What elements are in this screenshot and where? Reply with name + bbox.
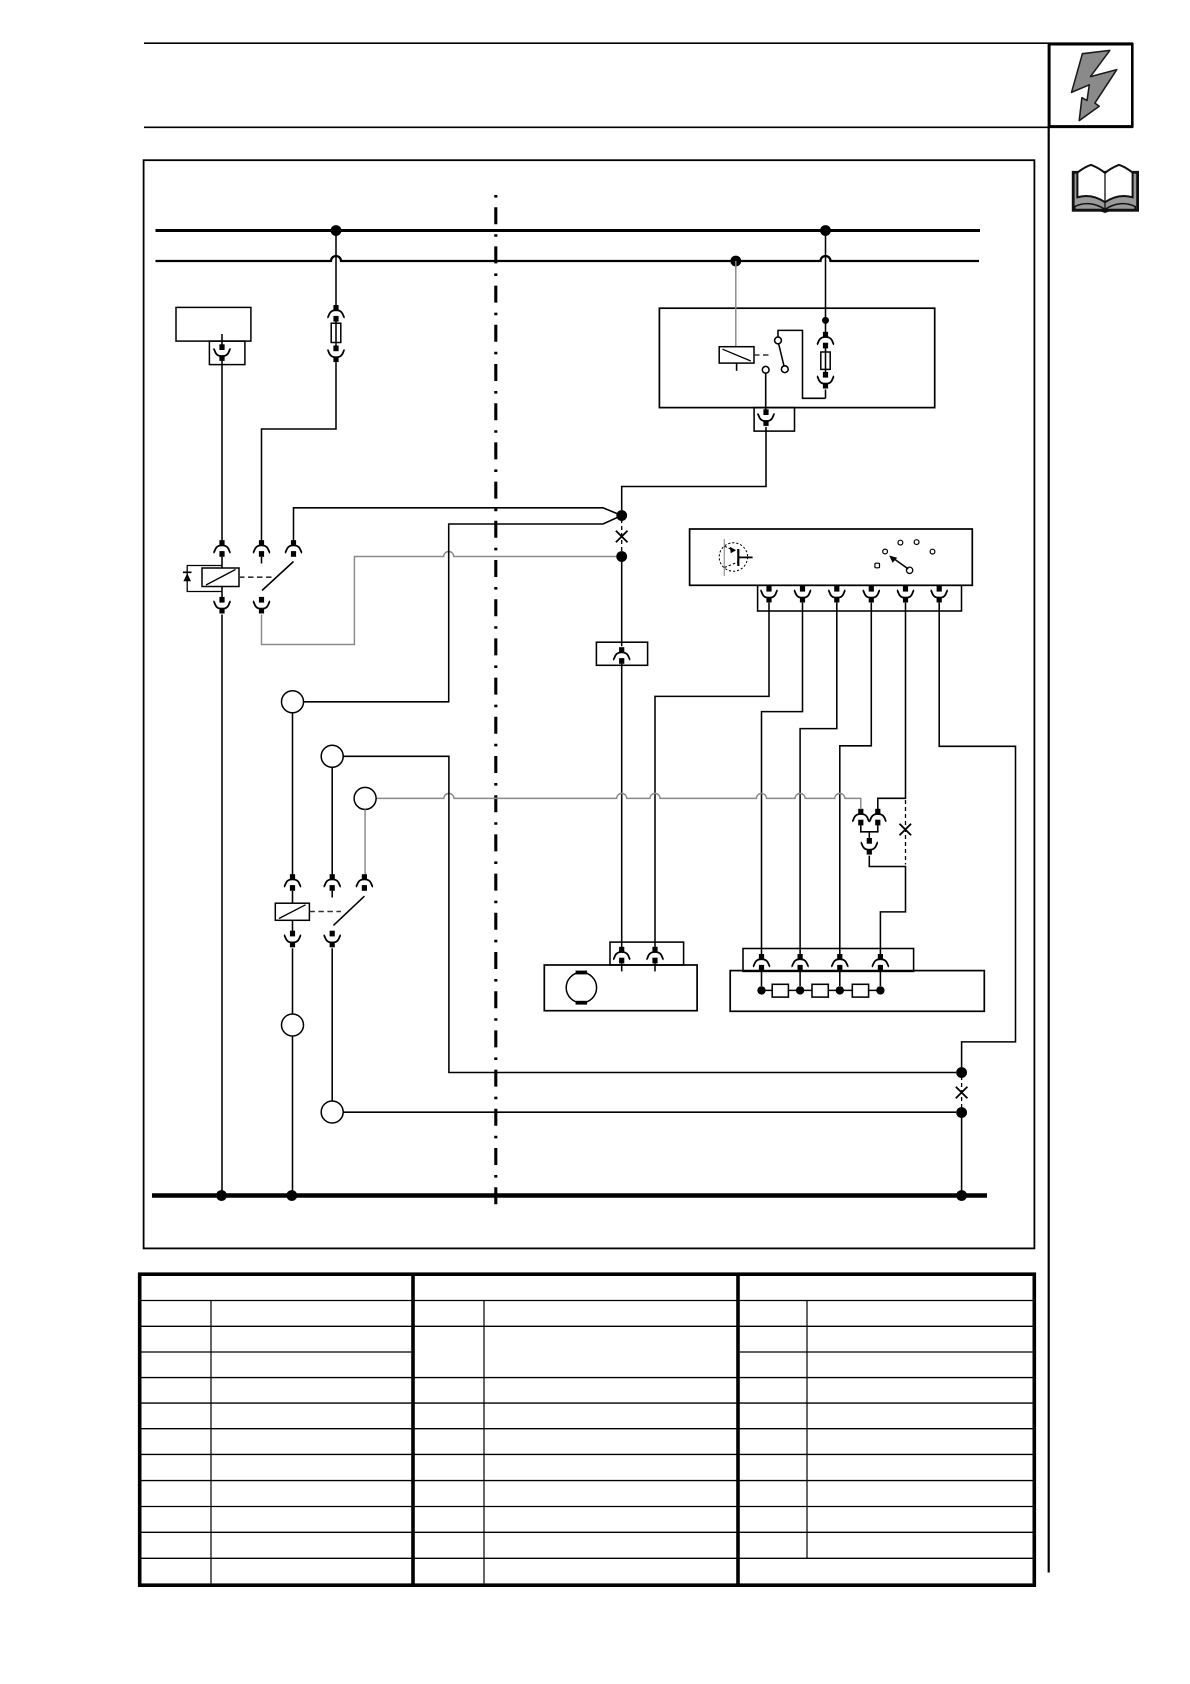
junction node on bus 30 at fuse S. <box>331 225 342 236</box>
terminal circle C4 <box>282 1014 304 1036</box>
ground node A <box>216 1190 227 1201</box>
wire relay J switch common to fuse F2 bottom <box>778 330 826 398</box>
blower motor connector housing <box>610 942 684 965</box>
bus bar 30 (top thick) <box>156 229 981 232</box>
wire C1 to relay K2 pin 1 <box>292 713 294 875</box>
relay J switch contact out <box>762 366 769 373</box>
connector pin 4 <box>863 586 880 603</box>
relay K2 connector pin 4 (bottom, coil) <box>284 931 301 948</box>
motor connector pin 1 <box>613 947 630 964</box>
relay K1 connector pin 3 (top) <box>285 540 302 557</box>
relay K1 switch blade <box>262 562 294 591</box>
connector pin 1 <box>760 586 777 603</box>
relay K2 connector pin 3 (top) <box>356 874 373 891</box>
control module box J301 <box>690 529 973 585</box>
relay K2 connector pin 2 (top) <box>324 874 341 891</box>
connector pin 3 <box>828 586 845 603</box>
transistor U1 (dashed circle) <box>719 543 747 571</box>
connector pin 5 <box>897 586 914 603</box>
relay J switch blade <box>779 344 784 366</box>
wire (grey) bus 15 to relay J coil <box>735 261 737 347</box>
node X1 lower junction <box>616 551 627 562</box>
relay K2 coil wire bottom <box>292 920 294 931</box>
relay K2 coil <box>275 903 309 920</box>
wire through fuse F1 <box>335 322 337 346</box>
relay K1 connector pin 1 (top) <box>213 540 230 557</box>
fuse F1 body <box>331 323 341 342</box>
relay K2 connector pin 5 (bottom, switch) <box>324 931 341 948</box>
resistor chain wire <box>762 989 881 991</box>
resistor pack connector pin 2 <box>792 954 809 971</box>
header rule bottom <box>144 126 1133 128</box>
resistor pack connector pin 3 <box>831 954 848 971</box>
wire relay K1 pin 3 to node X1 <box>294 508 622 541</box>
resistor R1 <box>772 984 788 997</box>
relay box J (top right) <box>659 308 934 407</box>
resistor pack connector housing <box>743 949 914 972</box>
resistor R2 <box>812 984 828 997</box>
splice mark X2 <box>900 824 912 836</box>
right column separator line <box>1048 43 1050 1572</box>
transistor U1 arrowhead <box>730 547 736 554</box>
diode V1 <box>183 571 192 573</box>
motor pin 1 stub <box>621 963 623 971</box>
wire (grey) relay K1 switch output to node X1 <box>262 552 618 645</box>
wire node to connector <box>825 320 827 332</box>
relay K2 switch blade <box>333 896 364 925</box>
dashed splice link X1 <box>621 519 623 553</box>
motor brush top <box>576 971 588 975</box>
wire fuse F2 lower stub <box>825 390 827 399</box>
relay K1 coil wire bottom <box>221 587 223 598</box>
wire C2 to relay K2 pin 2 <box>331 767 333 874</box>
ground bus 31 (bottom thick) <box>152 1193 987 1197</box>
connector T1a <box>213 344 230 361</box>
transistor U1 bar <box>737 549 739 566</box>
wire splice Y to resistor pack pin 4 <box>869 856 905 955</box>
transistor U1 base line (grey) <box>723 539 725 576</box>
wire through fuse F2 <box>825 347 827 373</box>
node Y upper junction <box>956 1067 967 1078</box>
relay K1 connector pin 2 (top) <box>253 540 270 557</box>
rotary switch pivot <box>906 567 912 573</box>
node X1 upper junction <box>616 510 627 521</box>
terminal circle C5 <box>321 1101 343 1123</box>
resistor node 2 <box>796 986 804 994</box>
resistor node 1 <box>757 986 765 994</box>
ground node B <box>286 1190 297 1201</box>
splice mark X3 <box>956 1087 968 1099</box>
terminal circle C2 <box>321 745 343 767</box>
centre dividing dash-dot line <box>494 195 497 1205</box>
resistor node 4 <box>876 986 884 994</box>
control module 6-pin connector housing <box>758 585 962 611</box>
relay K1 pin 2 stub <box>261 557 263 564</box>
wire bus 30 down to fuse F1 <box>335 231 337 306</box>
rotary switch contact c <box>914 540 919 545</box>
relay K2 coil wire top <box>292 891 294 903</box>
motor pin 2 stub <box>654 963 656 971</box>
wire pin2 to resistor pack pin 1 <box>762 603 803 955</box>
relay box output connector housing <box>754 408 794 432</box>
motor brush bottom <box>576 1001 588 1005</box>
connector below fuse F2 <box>817 372 834 389</box>
electrical warning icon box <box>1049 44 1132 126</box>
inline connector box <box>596 642 647 665</box>
motor armature circle <box>566 972 596 1002</box>
legend table outer border <box>140 1274 1035 1585</box>
relay K1 connector pin 5 (bottom, switch) <box>253 597 270 614</box>
wire bus 30 down to fuse F2 <box>825 231 827 319</box>
wire pin4 to resistor pack pin 3 <box>840 603 872 955</box>
wire pin3 to resistor pack pin 2 <box>800 603 837 955</box>
motor connector pin 2 <box>646 947 663 964</box>
wire C5 right to node Y lower <box>343 1111 956 1113</box>
relay K2 pin 2 stub <box>331 891 333 898</box>
relay K1 actuation dashed link <box>239 576 272 578</box>
legend table group separator 1 <box>411 1274 415 1585</box>
terminal circle C1 <box>282 691 304 713</box>
resistor pack pin stubs <box>762 971 881 986</box>
resistor pack box N23 <box>730 971 984 1012</box>
ground node C <box>956 1190 967 1201</box>
control unit box (top left) <box>176 307 251 341</box>
relay K1 coil <box>202 568 239 587</box>
dashed splice bypass <box>905 800 907 865</box>
blower motor box V2 <box>544 965 697 1011</box>
wire pin1 to blower motor pin 2 <box>655 603 769 948</box>
legend table key column line group 2 <box>483 1301 485 1584</box>
resistor R3 <box>852 984 868 997</box>
wire C4 to ground B <box>292 1036 294 1196</box>
relay K1 suppression diode loop <box>187 566 222 592</box>
wire inline connector to blower motor pin 1 <box>621 664 623 947</box>
wire pin5 down to splice Y <box>878 603 906 810</box>
relay K2 connector pin 1 (top) <box>284 874 301 891</box>
splice mark X1 <box>616 531 628 543</box>
dashed splice link Y <box>961 1076 963 1109</box>
double connector T2x left <box>852 809 869 826</box>
wire fuse F1 to relay K1 pin 2 <box>262 362 337 540</box>
wire (grey) C3 to relay K2 pin 3 <box>364 809 366 874</box>
wire control unit to relay K1 pin 1 <box>221 361 223 541</box>
node Y lower junction <box>956 1107 967 1118</box>
connector T1b <box>757 409 774 426</box>
connector above fuse F2 <box>817 332 834 349</box>
rotary switch contact d <box>930 549 935 554</box>
resistor pack connector pin 4 <box>872 954 889 971</box>
rotary switch contact b <box>898 540 903 545</box>
wire stub inside control unit <box>221 334 223 345</box>
wire relay K2 switch to terminal C5 <box>331 948 333 1101</box>
relay J switch contact common <box>775 337 782 344</box>
wire node X1 branch down to terminal circle C1 <box>304 516 622 702</box>
rotary switch contact a <box>883 549 888 554</box>
junction node on bus 30 right <box>820 225 831 236</box>
schematic frame <box>144 160 1035 1248</box>
wire node X1 to inline connector <box>621 557 623 647</box>
bus bar 15 (second) with hops <box>156 256 980 261</box>
connector pin 6 <box>931 586 948 603</box>
connector pin 2 <box>794 586 811 603</box>
inline connector T2 <box>613 647 630 664</box>
rotary switch wiper arrow <box>895 559 909 569</box>
node inside relay box <box>822 317 829 324</box>
wire node Y to ground C <box>961 1113 963 1196</box>
legend table row lines <box>142 1301 1033 1559</box>
single connector T2y <box>861 838 878 855</box>
relay K1 coil wire top <box>221 557 223 568</box>
relay J switch contact NO <box>781 366 788 373</box>
wire relay K2 coil to terminal C4 <box>292 948 294 1014</box>
double connector T2x right <box>869 809 886 826</box>
rotary switch contact e (square) <box>875 563 880 568</box>
connector above fuse F1 <box>327 305 344 322</box>
control unit connector housing <box>209 341 245 365</box>
header rule top <box>144 42 1133 44</box>
wire relay K1 coil to ground A <box>221 615 223 1196</box>
transistor U1 lead <box>738 556 752 558</box>
junction node on bus 15 <box>730 256 741 267</box>
legend table group separator 2 <box>736 1274 740 1585</box>
resistor pack connector pin 1 <box>753 954 770 971</box>
wire pin6 to ground C <box>939 603 1015 1068</box>
relay J coil stub <box>736 363 738 371</box>
legend table key column line group 3 <box>806 1301 808 1559</box>
transistor U1 dashed emitter <box>725 546 738 552</box>
relay J coil <box>719 347 754 363</box>
open book icon <box>1073 165 1137 213</box>
transistor U1 dashed collector diag <box>725 562 738 568</box>
resistor node 3 <box>836 986 844 994</box>
lightning bolt icon <box>1072 50 1117 120</box>
wire from relay box connector down-left to node X1 <box>622 427 766 511</box>
wire (grey) terminal C3 to double connector <box>376 793 861 809</box>
wire relay J output contact down <box>765 373 767 410</box>
wire C2 right to node Y upper <box>343 756 956 1072</box>
terminal circle C3 <box>354 787 376 809</box>
relay J dashed actuation link <box>754 354 771 356</box>
legend table key column line group 1 <box>210 1301 212 1584</box>
relay K1 connector pin 4 (bottom, coil) <box>213 597 230 614</box>
merge wire below double connector <box>861 825 878 838</box>
fuse F2 body <box>821 352 830 369</box>
connector below fuse F1 <box>327 346 344 363</box>
relay K2 dashed actuation link <box>309 911 341 913</box>
